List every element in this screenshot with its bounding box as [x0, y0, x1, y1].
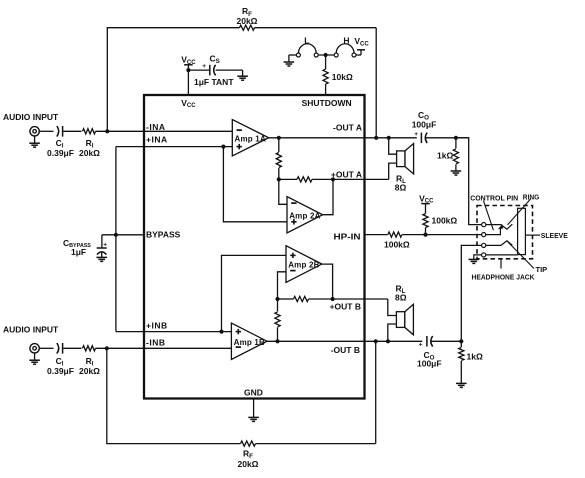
op-amp IC U1 outline: [144, 95, 365, 399]
ground CBYPASS: [96, 253, 107, 262]
jack sleeve bottom wire: [486, 254, 518, 256]
wire pullup: [425, 228, 427, 235]
label CO B value: [417, 359, 442, 369]
resistor gain B horizontal: [294, 296, 309, 301]
op-amp Amp 2A: [287, 197, 323, 234]
wire CS to ground: [216, 69, 243, 71]
svg-text:+INA: +INA: [146, 135, 168, 145]
jack pin 4: [482, 253, 486, 257]
svg-text:GND: GND: [244, 387, 263, 397]
label CI A value: [47, 148, 74, 158]
wire HP-IN: [365, 234, 482, 236]
resistor 100k pullup: [423, 214, 428, 228]
label VCC pullup: [419, 193, 434, 204]
svg-text:RING: RING: [523, 192, 540, 201]
capacitor CS: [202, 63, 215, 75]
wire +INA: [116, 146, 232, 148]
wire bypass to IC: [102, 234, 144, 236]
label CONTROL PIN: [470, 193, 518, 202]
label L: [304, 35, 309, 45]
label GND pin: [244, 387, 263, 397]
wire +INB: [116, 331, 231, 333]
svg-text:Amp 2B: Amp 2B: [288, 261, 319, 270]
capacitor CBYPASS: [97, 235, 108, 255]
wire Amp1B out (-OUT B): [267, 340, 461, 342]
node +INB branch: [219, 330, 223, 334]
node switch center: [324, 53, 328, 57]
svg-text:TIP: TIP: [536, 265, 548, 274]
leader RING: [508, 199, 531, 225]
ground headphone jack: [469, 259, 480, 263]
label CO A: [418, 110, 429, 122]
capacitor CI B: [57, 343, 63, 354]
node CO A out: [454, 136, 458, 140]
wire VCC pin: [187, 70, 189, 95]
resistor gain A vertical: [276, 153, 281, 168]
wire feedback B (bottom RF net): [107, 341, 376, 443]
label RF top: [242, 6, 252, 18]
wire +INA to Amp2A +: [223, 147, 287, 222]
leader HEADPHONE JACK: [500, 259, 502, 269]
jack sleeve contact: [518, 208, 526, 254]
svg-text:1μF: 1μF: [71, 247, 86, 257]
capacitor CI A: [57, 126, 63, 137]
node HP-IN junction: [423, 233, 427, 237]
switch contact 1: [296, 53, 300, 57]
ground input jack A: [29, 136, 40, 147]
wire CO A to jack: [456, 138, 482, 225]
wire bypass vertical: [115, 147, 117, 332]
wire Amp2B out: [322, 264, 333, 299]
jack ring arm: [486, 224, 513, 229]
wire gain res A vertical: [278, 138, 280, 180]
jack control arm: [486, 224, 503, 234]
svg-text:H: H: [343, 35, 349, 45]
leader CONTROL PIN: [483, 201, 493, 231]
node input B junction: [105, 346, 109, 350]
label RI A: [86, 138, 94, 150]
op-amp Amp 1A: [232, 120, 268, 157]
svg-text:20kΩ: 20kΩ: [79, 148, 100, 158]
resistor 10k shutdown: [323, 69, 328, 84]
wire 1k B: [460, 341, 462, 383]
label -INB: [146, 337, 165, 347]
wire Amp2A out: [323, 179, 333, 214]
label +INB: [146, 320, 168, 330]
wire RI A to -INA: [96, 130, 233, 132]
label CBYPASS value: [71, 247, 86, 257]
svg-text:+: +: [414, 131, 418, 138]
switch contact 2: [314, 53, 318, 57]
wire gain res B vertical: [277, 299, 279, 341]
svg-text:-OUT B: -OUT B: [331, 345, 360, 355]
capacitor CO A: [414, 131, 427, 143]
node bypass junction: [114, 233, 118, 237]
label RL B value: [395, 292, 407, 302]
label CI A: [56, 138, 64, 150]
svg-text:BYPASS: BYPASS: [146, 230, 181, 240]
op-amp Amp 2B: [286, 246, 322, 283]
node -OUT A speaker: [387, 136, 391, 140]
label RI A value: [79, 148, 100, 158]
label 1k B: [467, 352, 483, 362]
wire shutdown pin: [325, 55, 327, 95]
node Amp1B out: [275, 339, 279, 343]
label BYPASS: [146, 230, 181, 240]
label +OUT A: [331, 169, 362, 179]
ground 1k B: [456, 383, 467, 387]
label -OUT B: [331, 345, 360, 355]
label AUDIO INPUT B: [3, 324, 59, 334]
svg-text:1μF TANT: 1μF TANT: [194, 77, 234, 87]
wire cap to RI A: [63, 130, 81, 132]
node -OUT A feedback: [374, 136, 378, 140]
svg-text:20kΩ: 20kΩ: [237, 16, 258, 26]
resistor 1k A: [453, 149, 458, 164]
svg-text:+OUT B: +OUT B: [330, 301, 361, 311]
wire speaker A top: [389, 138, 397, 154]
ground GND pin: [248, 399, 259, 422]
label VCC supply A: [181, 55, 196, 66]
label RF bottom value: [238, 459, 259, 469]
wire Amp2B - input: [278, 272, 287, 299]
label RI B value: [79, 366, 100, 376]
label VCC switch: [354, 36, 369, 47]
node VCC junction: [186, 68, 190, 72]
svg-text:AUDIO INPUT: AUDIO INPUT: [3, 324, 59, 334]
wire Amp1A out (-OUT A): [269, 137, 469, 139]
label CS value: [194, 77, 234, 87]
svg-text:Amp 1A: Amp 1A: [235, 134, 266, 143]
resistor 1k B: [459, 348, 464, 361]
wire cap to RI B: [63, 347, 81, 349]
svg-text:100kΩ: 100kΩ: [384, 239, 410, 249]
jack pin 3: [482, 243, 486, 247]
label SHUTDOWN pin: [302, 98, 352, 108]
label HP-IN pin: [334, 232, 361, 242]
svg-text:+: +: [419, 342, 423, 349]
svg-text:1kΩ: 1kΩ: [437, 150, 453, 160]
label CI B: [56, 356, 64, 368]
headphone jack dashed box: [477, 206, 533, 259]
svg-text:Amp 2A: Amp 2A: [289, 211, 320, 220]
ground input jack B: [29, 353, 40, 364]
node +INA branch: [221, 145, 225, 149]
svg-text:100kΩ: 100kΩ: [432, 216, 458, 226]
svg-text:SLEEVE: SLEEVE: [541, 231, 568, 240]
label 1k A: [437, 150, 453, 160]
wire +OUT A: [279, 178, 389, 180]
svg-text:-INA: -INA: [146, 122, 165, 132]
label HEADPHONE JACK: [472, 273, 536, 282]
wire RI B to -INB: [96, 347, 232, 349]
resistor RI A: [83, 129, 96, 134]
label -INA: [146, 122, 165, 132]
label CBYPASS: [63, 238, 91, 249]
switch arc L: [298, 44, 316, 54]
wire input B to cap: [39, 347, 53, 349]
svg-text:-OUT A: -OUT A: [333, 123, 362, 133]
label AUDIO INPUT A: [3, 112, 59, 122]
svg-text:+OUT A: +OUT A: [331, 169, 362, 179]
resistor RF bottom: [241, 441, 256, 446]
node CO B out: [459, 339, 463, 343]
node +OUT B left: [275, 297, 279, 301]
switch contact 4: [352, 53, 356, 57]
label TIP: [536, 265, 548, 274]
svg-text:CONTROL PIN: CONTROL PIN: [470, 193, 518, 202]
jack pin 1: [482, 223, 486, 227]
label SLEEVE: [541, 231, 568, 240]
svg-text:10kΩ: 10kΩ: [332, 72, 353, 82]
power VCC pullup: [421, 204, 430, 214]
label RING: [523, 192, 540, 201]
label +INA: [146, 135, 168, 145]
node input A junction: [105, 129, 109, 133]
svg-text:SHUTDOWN: SHUTDOWN: [302, 98, 352, 108]
node +OUT B right: [331, 297, 335, 301]
svg-text:100μF: 100μF: [412, 119, 437, 129]
svg-text:Amp 1B: Amp 1B: [234, 338, 265, 347]
wire speaker A bottom: [389, 163, 397, 179]
label H: [343, 35, 349, 45]
svg-text:100μF: 100μF: [417, 359, 442, 369]
svg-text:8Ω: 8Ω: [395, 292, 407, 302]
input jack B: [30, 344, 39, 353]
wire CO B to jack: [461, 245, 481, 341]
wire speaker B bottom: [388, 324, 397, 341]
svg-text:20kΩ: 20kΩ: [79, 366, 100, 376]
svg-text:HEADPHONE JACK: HEADPHONE JACK: [472, 273, 536, 282]
label RL B: [396, 283, 406, 295]
svg-text:HP-IN: HP-IN: [334, 232, 361, 242]
wire 1k A: [455, 138, 457, 171]
wire Amp2B + input: [222, 255, 287, 331]
svg-text:+: +: [202, 63, 206, 70]
wire switch center: [316, 54, 336, 56]
label RF top value: [237, 16, 258, 26]
svg-text:-INB: -INB: [146, 337, 165, 347]
capacitor CO B: [419, 336, 433, 349]
svg-text:+: +: [103, 241, 107, 248]
ground CS: [237, 70, 248, 80]
wire Amp2A - input: [279, 179, 287, 204]
resistor RF top: [240, 25, 255, 30]
label 10k shutdown: [332, 72, 353, 82]
resistor RI B: [83, 346, 96, 351]
node -OUT B feedback: [374, 339, 378, 343]
ground switch L: [284, 62, 295, 66]
wire VCC to CS: [188, 69, 209, 71]
label -OUT A: [333, 123, 362, 133]
label RI B: [86, 356, 94, 368]
label VCC pin: [181, 98, 196, 109]
node -OUT B speaker: [386, 339, 390, 343]
svg-text:20kΩ: 20kΩ: [238, 459, 259, 469]
svg-text:8Ω: 8Ω: [395, 183, 407, 193]
svg-text:0.39μF: 0.39μF: [47, 366, 74, 376]
node Amp1A out: [277, 136, 281, 140]
wire SLEEVE tap: [525, 234, 540, 236]
label RL A value: [395, 183, 407, 193]
wire feedback A (top RF net): [107, 28, 376, 138]
label 100k pullup: [432, 216, 458, 226]
svg-text:L: L: [304, 35, 309, 45]
wire switch H to VCC: [354, 54, 361, 56]
wire switch L to ground: [289, 55, 299, 62]
svg-text:0.39μF: 0.39μF: [47, 148, 74, 158]
label 100k HP-IN: [384, 239, 410, 249]
node +OUT A left: [277, 177, 281, 181]
speaker RL B: [396, 304, 413, 335]
label CO A value: [412, 119, 437, 129]
power VCC supply A: [184, 65, 193, 70]
wire input A to cap: [39, 130, 53, 132]
svg-text:1kΩ: 1kΩ: [467, 352, 483, 362]
label +OUT B: [330, 301, 361, 311]
wire jack ground: [474, 255, 482, 259]
svg-text:+INB: +INB: [146, 320, 168, 330]
ground 1k A: [451, 171, 462, 175]
resistor 100k HP-IN: [388, 232, 402, 237]
label CO B: [424, 350, 435, 362]
op-amp Amp 1B: [231, 323, 267, 359]
label RL A: [396, 173, 406, 185]
wire +OUT B: [278, 298, 388, 300]
wire speaker B top: [388, 299, 397, 316]
speaker RL A: [397, 144, 414, 175]
leader TIP: [507, 241, 534, 268]
power VCC switch: [357, 50, 365, 55]
switch contact 3: [334, 53, 338, 57]
resistor gain A horizontal: [297, 177, 312, 182]
switch arc H: [336, 44, 354, 54]
input jack A: [30, 127, 39, 136]
jack tip arm: [486, 241, 513, 246]
resistor gain B vertical: [275, 312, 280, 327]
node +OUT A right: [331, 177, 335, 181]
svg-text:AUDIO INPUT: AUDIO INPUT: [3, 112, 59, 122]
label RF bottom: [243, 449, 253, 461]
jack pin 2: [482, 233, 486, 237]
label CI B value: [47, 366, 74, 376]
label CS: [210, 54, 220, 66]
